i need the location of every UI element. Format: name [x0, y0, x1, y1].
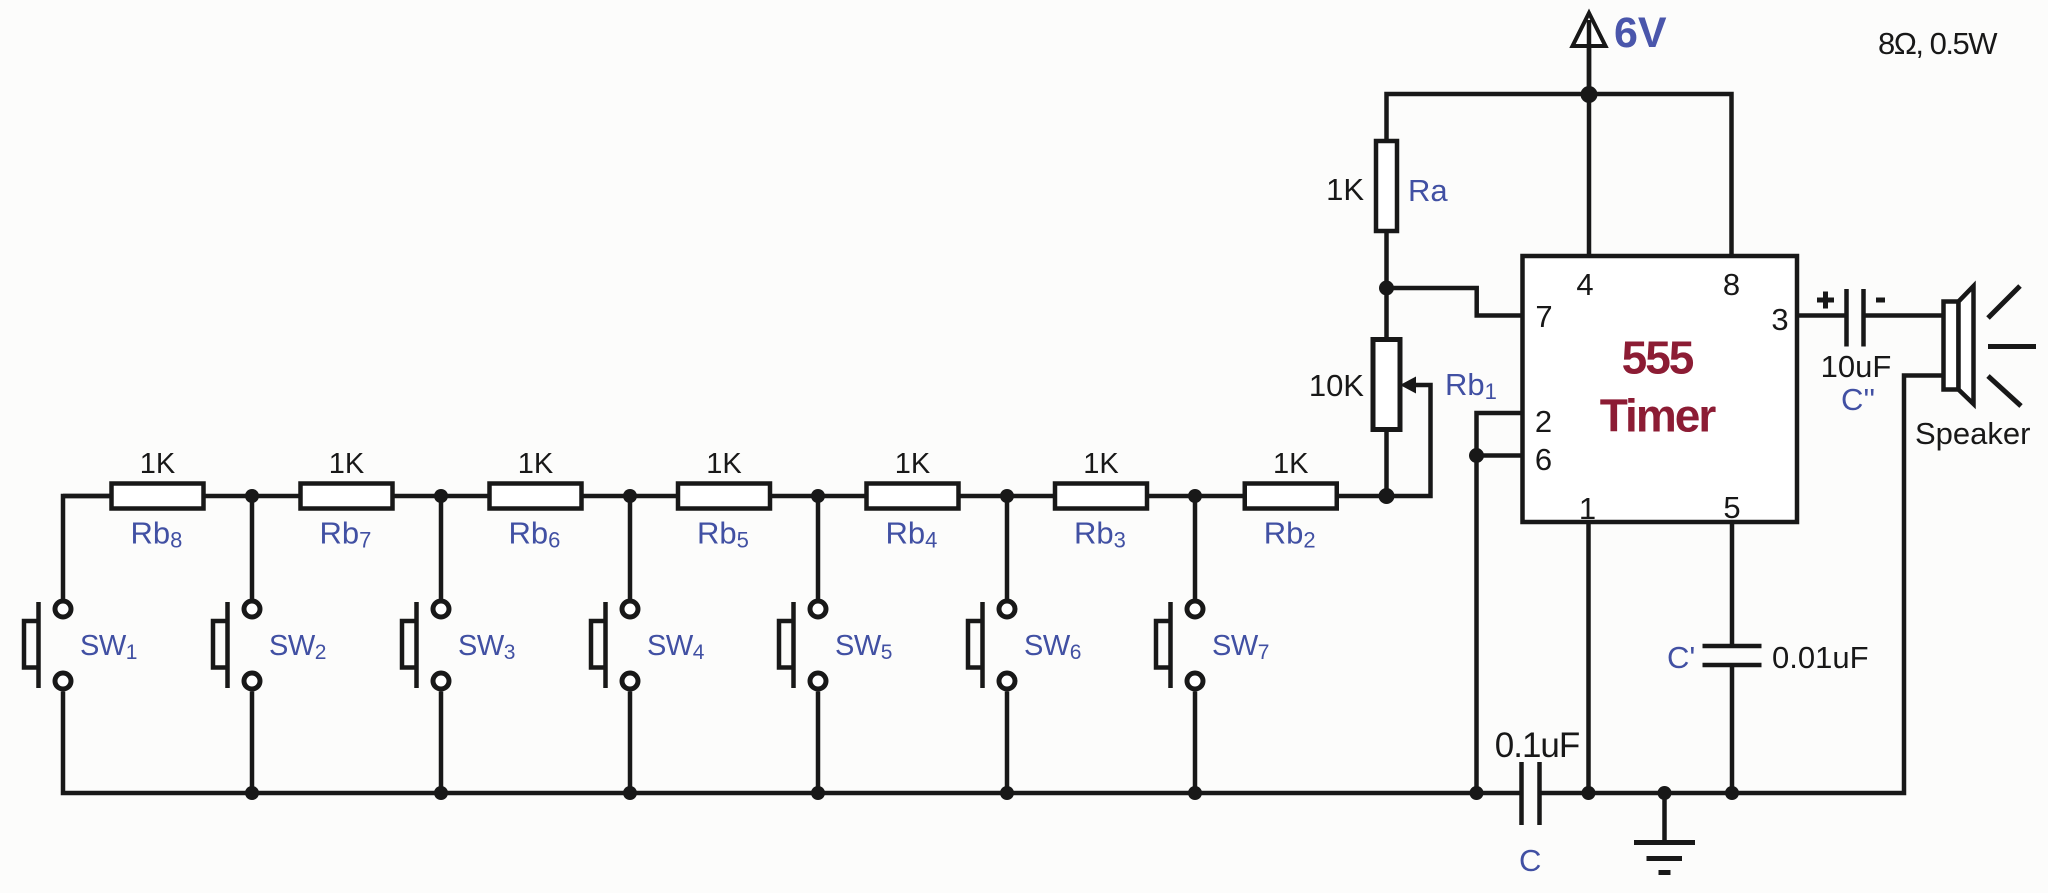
- svg-text:1K: 1K: [1326, 172, 1364, 207]
- svg-text:1K: 1K: [1083, 448, 1119, 480]
- svg-text:3: 3: [1771, 302, 1788, 337]
- svg-text:8Ω, 0.5W: 8Ω, 0.5W: [1878, 26, 1998, 61]
- svg-text:1: 1: [1579, 491, 1596, 526]
- svg-text:2: 2: [1535, 404, 1552, 439]
- svg-text:1K: 1K: [1273, 448, 1309, 480]
- svg-text:1K: 1K: [518, 448, 554, 480]
- svg-text:7: 7: [1535, 299, 1552, 334]
- svg-text:4: 4: [1576, 267, 1593, 302]
- svg-text:1K: 1K: [706, 448, 742, 480]
- svg-text:Ra: Ra: [1408, 173, 1448, 208]
- svg-text:C': C': [1667, 640, 1695, 675]
- svg-text:C'': C'': [1841, 382, 1875, 417]
- svg-text:5: 5: [1723, 490, 1740, 525]
- svg-text:6V: 6V: [1614, 9, 1667, 57]
- svg-text:1K: 1K: [140, 448, 176, 480]
- svg-text:1K: 1K: [329, 448, 365, 480]
- svg-text:10uF: 10uF: [1821, 349, 1892, 384]
- svg-text:1K: 1K: [895, 448, 931, 480]
- svg-text:6: 6: [1535, 442, 1552, 477]
- svg-text:10K: 10K: [1309, 368, 1364, 403]
- svg-text:0.01uF: 0.01uF: [1772, 640, 1869, 675]
- svg-text:555: 555: [1622, 332, 1694, 384]
- svg-text:Speaker: Speaker: [1915, 416, 2030, 451]
- svg-text:Timer: Timer: [1600, 390, 1717, 442]
- svg-text:0.1uF: 0.1uF: [1495, 726, 1580, 765]
- svg-text:C: C: [1519, 843, 1541, 878]
- svg-text:8: 8: [1723, 267, 1740, 302]
